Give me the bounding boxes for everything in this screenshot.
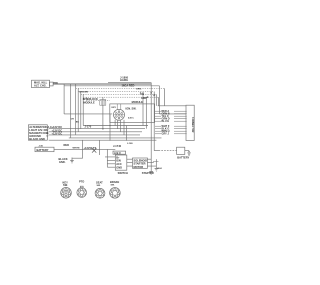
svg-text:SWITCH: SWITCH	[118, 171, 128, 175]
svg-text:J-90: J-90	[39, 145, 44, 147]
battery box E	[177, 147, 185, 154]
svg-text:BK: BK	[76, 122, 80, 124]
small box above F	[113, 151, 126, 154]
wire right bus x151	[150, 83, 152, 172]
tick near grounds	[153, 161, 159, 163]
wire vertical x102.9	[102, 97, 104, 129]
wire nested dashed 3	[81, 93, 157, 95]
wire vertical drop x83.2	[82, 94, 84, 125]
svg-text:GRY J: GRY J	[162, 133, 170, 136]
fuse on +12V wire	[92, 148, 96, 152]
svg-text:BLACK GND: BLACK GND	[29, 137, 45, 141]
svg-text:J-180: J-180	[127, 143, 133, 145]
svg-text:BATTERY: BATTERY	[177, 155, 189, 159]
left text box D	[28, 125, 47, 140]
wire vertical drop x86.3	[85, 97, 87, 100]
junction dots	[102, 92, 155, 130]
wire ground from box D	[49, 140, 83, 158]
wires G to right	[147, 159, 156, 166]
wire into block C upper	[158, 89, 186, 106]
ground at battery	[187, 152, 190, 156]
connector circle 3 pins	[96, 189, 103, 197]
svg-text:HARN.: HARN.	[120, 78, 128, 82]
wire vertical drop x70.7	[70, 84, 72, 137]
nested right return x146.3	[145, 97, 147, 129]
svg-text:AMP: AMP	[141, 96, 147, 100]
right block C row stubs	[155, 111, 187, 134]
svg-text:+12V DC: +12V DC	[52, 131, 63, 135]
wire bus x156 upper	[155, 94, 157, 106]
right block C rows	[162, 110, 195, 136]
ignition switch spokes	[114, 109, 125, 120]
svg-text:WHITE: WHITE	[73, 147, 81, 149]
svg-text:MODULE: MODULE	[132, 100, 144, 104]
wire band row6	[83, 139, 157, 141]
ground lower middle 2	[155, 169, 158, 172]
wire drop x99.5	[99, 140, 101, 155]
switch top leads	[117, 104, 121, 110]
svg-text:GND: GND	[116, 165, 122, 169]
connector circle 1 pins	[62, 189, 71, 197]
wire to switch y114	[64, 113, 112, 115]
wire bus x156 lower	[155, 159, 157, 168]
svg-text:CONNECTOR: CONNECTOR	[191, 117, 194, 133]
connector circle 4	[110, 188, 121, 199]
relay box B1	[35, 147, 54, 152]
connector circle 2 pins	[78, 188, 85, 196]
wire switch leg4	[123, 120, 125, 135]
wire to battery box E dashed	[159, 150, 177, 152]
wire switch leg1	[114, 120, 116, 126]
svg-text:RED: RED	[54, 82, 59, 84]
svg-text:MODULE: MODULE	[84, 100, 96, 104]
wire band row5	[69, 137, 162, 139]
engine box A connector tab	[50, 82, 54, 86]
wire switch leg3	[120, 120, 122, 132]
wire drop x107.3	[106, 149, 108, 167]
interlock symbol	[100, 100, 106, 106]
svg-text:SEAT: SEAT	[96, 180, 103, 184]
interlock symbol hatch	[101, 100, 104, 106]
right connector block C	[186, 105, 194, 140]
wire vertical drop x75.7	[75, 84, 77, 134]
connector circle 1	[61, 188, 72, 199]
ignition switch pins	[115, 111, 122, 119]
wires F to G	[127, 159, 133, 166]
wire band row3	[49, 131, 142, 133]
svg-text:BATTERY: BATTERY	[37, 148, 49, 152]
wire vertical drop x80.8	[80, 92, 82, 129]
switch housing box F	[115, 155, 127, 170]
ground left cluster	[70, 158, 74, 163]
svg-text:ORN.: ORN.	[136, 88, 142, 90]
svg-text:SW.: SW.	[111, 184, 115, 186]
svg-text:J-1740: J-1740	[113, 144, 122, 148]
nested right return x143	[142, 93, 144, 126]
engine box A	[32, 80, 50, 87]
wire nested dashed 2	[78, 91, 154, 93]
wire nested dashed 4	[83, 96, 158, 98]
svg-text:GND.: GND.	[59, 160, 66, 164]
wire jog down x110	[109, 114, 111, 141]
wire vertical drop x64	[63, 84, 65, 114]
wire band row1	[83, 125, 148, 127]
wire jog down x126.6	[126, 126, 128, 141]
svg-text:ALT. CHG.: ALT. CHG.	[34, 84, 47, 88]
wire top second	[64, 85, 159, 87]
ignition switch box	[110, 104, 155, 123]
connector circle 2	[77, 188, 87, 198]
svg-text:SW.: SW.	[63, 183, 68, 187]
connector circle 4 pins	[111, 189, 120, 198]
svg-text:PTO: PTO	[79, 179, 84, 183]
svg-text:OR: OR	[71, 119, 75, 121]
svg-text:IGN. SW.: IGN. SW.	[126, 107, 137, 111]
wire F stubs	[105, 157, 115, 167]
svg-text:+12VOLTS: +12VOLTS	[84, 146, 97, 150]
tiny text labels	[29, 76, 189, 187]
svg-text:INTERLOCK: INTERLOCK	[83, 97, 98, 101]
svg-text:J-170: J-170	[85, 125, 92, 129]
wire top third partial	[108, 82, 151, 84]
svg-text:A B C: A B C	[128, 117, 134, 120]
svg-text:16GA RED: 16GA RED	[122, 83, 135, 87]
wire nested dashed 5	[86, 99, 110, 101]
svg-text:KEY: KEY	[112, 107, 117, 109]
svg-text:SW.: SW.	[97, 185, 101, 187]
wire vertical drop x78.2	[77, 88, 79, 131]
wire top dashed	[76, 87, 165, 89]
svg-text:BROWN: BROWN	[80, 91, 89, 93]
svg-text:A B C: A B C	[114, 151, 121, 155]
svg-text:BLK: BLK	[158, 168, 163, 170]
wire into block C lower	[159, 113, 186, 115]
box D terminal dots	[47, 129, 49, 137]
wire main top	[53, 83, 151, 85]
wire right bus x159	[158, 86, 160, 114]
svg-text:ACC: ACC	[116, 162, 122, 166]
module box G	[133, 158, 148, 168]
wire to battery box E	[154, 150, 158, 152]
svg-text:STARTER: STARTER	[142, 171, 154, 175]
svg-text:BLU E: BLU E	[162, 120, 170, 123]
wire switch leg2	[117, 120, 119, 128]
svg-text:MOTOR: MOTOR	[134, 165, 144, 169]
connector circle 3	[95, 188, 105, 198]
wire band row2	[49, 128, 145, 130]
wire band row4	[49, 134, 140, 136]
svg-text:IGN: IGN	[116, 159, 121, 163]
svg-text:RED: RED	[64, 143, 70, 147]
ignition switch circle	[114, 109, 125, 120]
svg-text:BRAKE: BRAKE	[110, 180, 119, 184]
wire right bus x154	[153, 92, 155, 151]
ground lower middle	[149, 172, 153, 175]
connector circle 2 tab	[80, 186, 83, 188]
wire +12V feed	[54, 148, 115, 150]
